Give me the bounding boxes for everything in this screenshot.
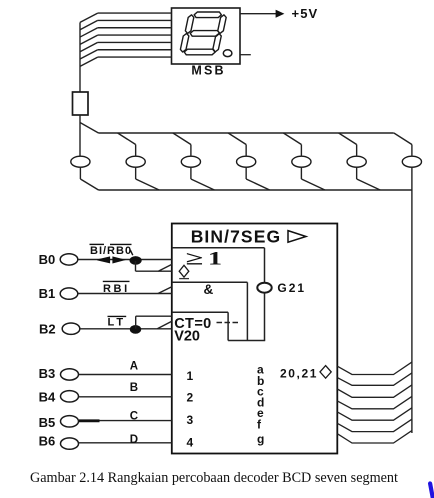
svg-text:≥: ≥ — [186, 247, 204, 268]
svg-text:B1: B1 — [39, 286, 56, 301]
svg-text:C: C — [130, 411, 138, 423]
svg-text:4: 4 — [187, 435, 194, 449]
svg-text:V20: V20 — [174, 329, 200, 345]
svg-text:BIN/7SEG: BIN/7SEG — [191, 226, 282, 246]
svg-text:D: D — [130, 434, 138, 446]
svg-text:B0: B0 — [39, 252, 56, 267]
svg-text:3: 3 — [187, 413, 194, 427]
svg-text:g: g — [257, 432, 264, 446]
svg-text:B2: B2 — [39, 322, 56, 337]
svg-text:B3: B3 — [39, 366, 56, 381]
svg-text:20,21: 20,21 — [280, 366, 318, 380]
svg-text:LT: LT — [108, 317, 127, 329]
svg-text:B4: B4 — [39, 390, 56, 405]
svg-text:B5: B5 — [39, 415, 56, 430]
svg-text:MSB: MSB — [191, 64, 225, 78]
svg-text:1: 1 — [187, 369, 194, 383]
svg-text:RBI: RBI — [103, 283, 130, 295]
svg-text:G21: G21 — [277, 281, 306, 295]
svg-text:2: 2 — [187, 391, 194, 405]
svg-text:BI/RB0: BI/RB0 — [90, 245, 132, 257]
svg-text:&: & — [204, 282, 214, 297]
svg-text:B: B — [130, 382, 138, 394]
svg-text:B6: B6 — [39, 433, 56, 448]
svg-text:+5V: +5V — [292, 6, 319, 21]
svg-text:1: 1 — [208, 248, 222, 269]
svg-text:A: A — [130, 361, 138, 373]
